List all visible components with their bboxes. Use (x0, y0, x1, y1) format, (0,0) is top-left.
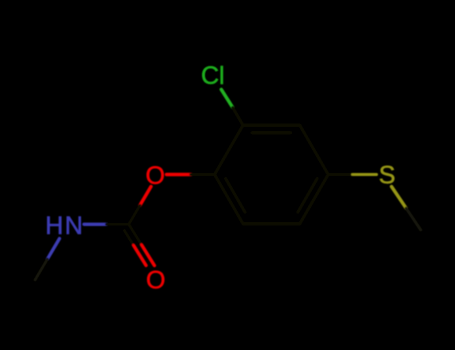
svg-text:S: S (379, 162, 396, 190)
svg-text:O: O (146, 162, 165, 190)
wire ring edge TL-TR (243, 124, 300, 127)
wire S-methyl bond (S half, olive) (392, 187, 407, 209)
wire ring edge TR-R (300, 125, 328, 174)
wire Cl-ring bond (C half, dark) (233, 108, 243, 126)
svg-text:N: N (65, 212, 83, 240)
svg-text:O: O (146, 266, 165, 294)
wire O-C carbamate bond (C half, dark) (129, 205, 140, 224)
benzene ring (carbon skeleton) (215, 125, 329, 223)
wire aromatic inner line top (252, 131, 291, 134)
svg-text:H: H (45, 212, 63, 240)
wire C=O second line (O half, red) (134, 245, 146, 265)
wire aromatic inner line right (298, 179, 317, 213)
wire ring edge R-BR (300, 175, 328, 224)
wire ring edge BR-BL (243, 222, 300, 225)
wire ring edge BL-L (215, 175, 243, 224)
wire C=O second line (C half, dark) (124, 231, 133, 246)
wire O-ring bond (C half, dark) (191, 173, 215, 176)
wire O-ring bond (O half, red) (167, 173, 191, 176)
wire S-methyl bond (C half, dark) (406, 208, 421, 230)
wire N-methyl bond (C half, dark) (35, 259, 47, 280)
wire ring-S bond (S half, olive) (353, 173, 377, 176)
wire C=O main line (C half, dark) (129, 224, 142, 245)
wire N-C bond (N half, blue) (84, 223, 107, 226)
wire ring-S bond (C half, dark) (328, 173, 352, 176)
wire O-C carbamate bond (O half, red) (140, 187, 151, 206)
wire C=O main line (O half, red) (142, 245, 155, 266)
wire Cl-ring bond (Cl half, green) (221, 90, 232, 108)
wire N-methyl bond (N half, blue) (47, 239, 59, 260)
wire N-C bond (C half, dark) (107, 223, 129, 226)
svg-text:Cl: Cl (201, 62, 225, 90)
wire aromatic inner line left (226, 179, 245, 213)
wire ring edge L-TL (215, 125, 243, 174)
